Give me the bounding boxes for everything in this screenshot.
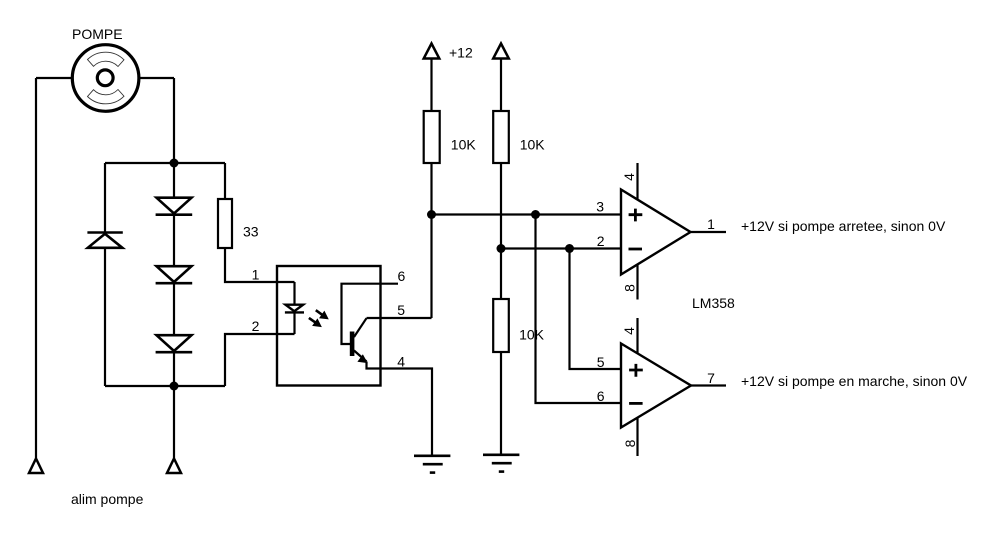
svg-text:POMPE: POMPE [72, 26, 123, 42]
svg-text:7: 7 [707, 370, 715, 386]
wire arrow to R2 [500, 59, 502, 112]
op-amp U2A triangle [621, 190, 691, 275]
minus sign U2A [629, 248, 643, 251]
wire right vertical down to top rail [173, 78, 175, 163]
phototransistor collector [354, 318, 367, 337]
wire resistor branch upper [224, 163, 226, 199]
svg-text:10K: 10K [519, 327, 545, 343]
svg-text:3: 3 [596, 199, 604, 215]
wire LED cathode lead [293, 312, 295, 334]
diode D1 [156, 198, 193, 215]
wire arrow to R1 [430, 59, 432, 112]
connector arrow alim pompe right [167, 459, 181, 474]
wire U2A pin4 [636, 163, 638, 200]
LED D5 [285, 305, 304, 313]
diode D3 [156, 335, 193, 352]
wire R1 down to pin5 node [430, 163, 432, 318]
node junction A [427, 210, 436, 219]
light arrow 2 [309, 318, 321, 327]
ground GND1 [414, 456, 450, 473]
node junction top rail [170, 159, 179, 168]
wire middle branch segment 4 [173, 352, 175, 386]
svg-text:5: 5 [397, 302, 405, 318]
node junction B [497, 244, 506, 253]
wire middle down to arrow [173, 386, 175, 458]
svg-text:+12: +12 [449, 45, 473, 61]
svg-text:LM358: LM358 [692, 295, 735, 311]
node junction bottom rail [170, 382, 179, 391]
minus sign U2B [629, 402, 643, 405]
wire pump right lead [139, 77, 174, 79]
wire comparator line 3 [432, 213, 622, 215]
diode D4 (reverse, pointing up) [87, 233, 122, 248]
wire U2A output pin1 [691, 231, 727, 233]
wire pin4 emitter out [367, 362, 433, 456]
diode D2 [156, 266, 193, 283]
svg-text:6: 6 [597, 388, 605, 404]
power arrow +12 (left) [424, 44, 440, 59]
resistor R3 10K [493, 299, 509, 352]
svg-text:8: 8 [622, 439, 638, 447]
wire U2B pin8 [636, 418, 638, 456]
wire resistor to pin1 [225, 248, 295, 282]
resistor R 33 [218, 199, 232, 248]
wire bottom rail [105, 385, 225, 387]
svg-text:1: 1 [707, 216, 715, 232]
wire zener branch lower [104, 248, 106, 386]
node junction B2 [565, 244, 574, 253]
svg-text:4: 4 [621, 327, 637, 335]
ground GND2 [483, 455, 519, 472]
svg-text:4: 4 [397, 353, 405, 369]
connector arrow alim pompe left [29, 459, 43, 474]
wire R2 down to R3 [500, 163, 502, 299]
resistor R1 10K [424, 111, 440, 163]
wire pin6 base stub [342, 284, 399, 344]
svg-text:33: 33 [243, 224, 259, 240]
svg-text:+12V si pompe en marche, sinon: +12V si pompe en marche, sinon 0V [741, 373, 968, 389]
wire U2B pin4 [636, 318, 638, 354]
plus sign U2A [629, 209, 643, 222]
pump motor M1 POMPE [72, 45, 139, 112]
svg-text:6: 6 [398, 268, 406, 284]
light arrow 1 [316, 310, 328, 319]
wire pin2 to bottom rail [225, 334, 295, 386]
wire pin5 collector out [367, 317, 432, 319]
power arrow +12 (right) [493, 44, 509, 59]
op-amp U2B triangle [621, 344, 691, 428]
svg-text:+12V si pompe arretee, sinon 0: +12V si pompe arretee, sinon 0V [741, 218, 946, 234]
wire R3 to ground [500, 352, 502, 454]
wire U2B output pin7 [691, 384, 726, 386]
svg-text:1: 1 [252, 267, 260, 283]
wire middle branch segment 3 [173, 283, 175, 335]
wire vertical A to pin6 of U2B [536, 215, 622, 404]
wire U2A pin8 [636, 265, 638, 300]
wire middle branch segment 2 [173, 215, 175, 266]
phototransistor emitter with arrow [354, 351, 367, 363]
svg-text:2: 2 [252, 318, 260, 334]
wire LED anode lead [293, 282, 295, 305]
svg-text:alim pompe: alim pompe [71, 491, 144, 507]
wire vertical B to pin5 of U2B [570, 249, 622, 370]
wire middle branch segment 1 [173, 163, 175, 198]
wire left vertical to alim arrow [35, 78, 37, 458]
phototransistor Q1 base bar [350, 332, 355, 357]
svg-text:2: 2 [597, 233, 605, 249]
resistor R2 10K [493, 111, 509, 163]
plus sign U2B [629, 364, 643, 377]
svg-text:5: 5 [597, 354, 605, 370]
wire top rail [105, 162, 225, 164]
wire pump left lead [36, 77, 73, 79]
svg-text:10K: 10K [520, 136, 546, 152]
wire zener branch upper [104, 163, 106, 232]
node junction A2 [531, 210, 540, 219]
wire comparator line 2 [501, 247, 621, 249]
svg-text:8: 8 [621, 284, 637, 292]
svg-text:10K: 10K [451, 136, 477, 152]
svg-text:4: 4 [621, 173, 637, 181]
optocoupler U1 box [277, 266, 381, 386]
